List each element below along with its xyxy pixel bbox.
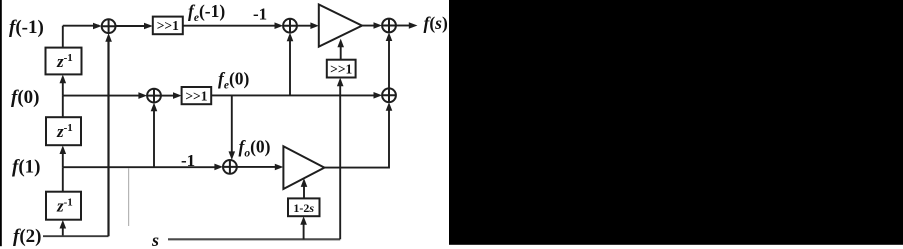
shifter S2 box (>>1) (182, 87, 212, 104)
arrowhead into adder A5 from left (374, 92, 383, 99)
arrowhead into amplifier T2 (275, 164, 284, 171)
wire: amplifier T2 output right then up into adder A5 (324, 106, 389, 168)
arrowhead into adder A4 from below (151, 103, 158, 112)
wire: shifter S2 to adder A5 across rows (211, 94, 378, 96)
svg-text:fe(-1): fe(-1) (188, 1, 225, 24)
wire: f(2) long vertical up into adder A1 (107, 37, 109, 237)
wire: adder A5 up to adder A3 (388, 36, 390, 88)
adder A1 (row1 left summing junction) (102, 19, 116, 33)
wire: f(1) branch up into adder A4 (153, 106, 155, 167)
wire: adder A2 to amplifier T1 (297, 25, 315, 27)
arrowhead into adder A2 from left (275, 22, 284, 29)
arrowhead into adder A6 from above (229, 151, 236, 160)
wire: f(0) row up into delay Z1 bottom (62, 81, 64, 96)
svg-text:f(0): f(0) (11, 87, 39, 108)
wire: f(2) row up into delay Z3 bottom (62, 226, 64, 236)
adder A3 (row1 right summing junction) (382, 19, 396, 33)
svg-text:s: s (151, 230, 159, 249)
delay Z1 box (z^-1 between f(-1) and f(0)) (46, 48, 82, 75)
adder A6 (row3 summing junction) (223, 160, 237, 174)
wire: amplifier T1 output to adder A3 (362, 25, 379, 27)
arrowhead into adder A1 from left (93, 23, 102, 30)
wire: adder A4 to shifter S2 (161, 95, 175, 97)
svg-text:fe(0): fe(0) (218, 68, 250, 91)
svg-text:>>1: >>1 (185, 88, 207, 103)
arrowhead into amplifier T1 (310, 22, 318, 29)
svg-text:>>1: >>1 (157, 18, 179, 33)
amplifier T2 (row3 triangle) (283, 146, 324, 189)
svg-text:1-2s: 1-2s (293, 201, 314, 215)
svg-text:f(-1): f(-1) (9, 17, 44, 38)
arrowhead into amplifier T2 from below (301, 178, 308, 187)
arrowhead into adder A5 from below (386, 102, 393, 111)
amplifier T1 (row1 triangle) (319, 5, 362, 47)
arrowhead into adder A3 from below (386, 32, 393, 41)
wire: adder A6 to amplifier T2 (237, 166, 280, 168)
wire: shifter S1 to adder A2 (183, 25, 280, 27)
arrowhead into adder A3 from left (374, 22, 383, 29)
arrowhead into amplifier T1 from below (337, 39, 344, 48)
wire: branch of row2 up into adder A2 (289, 36, 291, 95)
svg-text:f(s): f(s) (424, 13, 448, 33)
svg-text:f(2): f(2) (13, 226, 41, 247)
black fill panel on right (449, 0, 903, 245)
wire: adder A1 to shifter S1 (116, 25, 147, 27)
arrowhead into shifter S3 bottom (337, 78, 344, 87)
delay Z3 box (z^-1 between f(1) and f(2)) (46, 192, 81, 220)
arrowhead into adder A6 from left (214, 164, 223, 171)
svg-text:fo(0): fo(0) (239, 136, 271, 159)
arrowhead into delay Z3 bottom (60, 220, 67, 229)
wire: branch of row2 down into adder A6 (231, 95, 233, 156)
svg-text:-1: -1 (253, 5, 267, 24)
wire: f(-1) row horizontal into adder A1 (63, 25, 99, 27)
wire: s long vertical up into shifter S3 bottom (339, 84, 341, 239)
arrowhead into delay Z2 bottom (60, 145, 67, 154)
delay Z2 box (z^-1 between f(0) and f(1)) (46, 117, 81, 145)
wire: f(0) row horizontal into adder A4 (63, 95, 144, 97)
wire: s branch up into multiplier P bottom (303, 223, 305, 240)
arrowhead into delay Z1 bottom (60, 75, 67, 84)
arrowhead into adder A1 from below (105, 33, 112, 42)
adder A5 (row2 right summing junction) (382, 88, 396, 102)
svg-text:>>1: >>1 (330, 62, 352, 77)
arrowhead output f(s) (409, 22, 418, 29)
adder A2 (row1 middle summing junction) (283, 19, 297, 33)
black strip at left edge (0, 0, 2, 246)
arrowhead into adder A2 from below (287, 33, 294, 42)
arrowhead into multiplier P bottom (300, 216, 307, 225)
multiplier P box (1-2s) (288, 198, 320, 216)
arrowhead into shifter S1 (144, 23, 153, 30)
wire: delay Z3 top up to f(1) row (62, 167, 64, 192)
wire: shifter S3 output up into amplifier T1 bottom (340, 45, 342, 60)
adder A4 (row2 left summing junction) (147, 89, 161, 103)
wire: multiplier P output up into amplifier T2 bottom (303, 184, 305, 198)
wire: f(1) row up into delay Z2 bottom (62, 152, 64, 168)
svg-text:-1: -1 (181, 151, 195, 170)
wire: adder A3 to output f(s) (396, 25, 410, 27)
faint ghost line below f(1) row (128, 168, 130, 226)
arrowhead into shifter S2 (173, 92, 182, 99)
svg-text:f(1): f(1) (12, 157, 40, 178)
wire: f(1) row horizontal into adder A6 (63, 166, 216, 168)
arrowhead into adder A4 from left (138, 92, 147, 99)
wire: delay Z2 top up to f(0) row (62, 96, 64, 118)
shifter S3 box (>>1) (327, 60, 356, 78)
wire: s row horizontal (168, 238, 340, 240)
wire: branch from f(-1) row down to delay Z1 top (62, 26, 64, 48)
wire: f(2) row horizontal (43, 235, 109, 237)
shifter S1 box (>>1) (153, 17, 183, 35)
